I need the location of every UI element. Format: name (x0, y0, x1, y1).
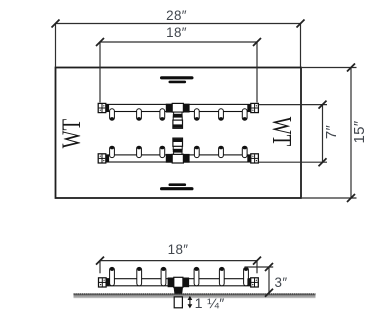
svg-text:WT: WT (57, 119, 86, 149)
svg-text:18″: 18″ (168, 242, 189, 257)
svg-text:18″: 18″ (166, 25, 187, 40)
svg-text:15″: 15″ (351, 120, 368, 143)
svg-text:WT: WT (266, 117, 296, 147)
svg-text:1 ¼″: 1 ¼″ (195, 296, 225, 312)
svg-text:28″: 28″ (166, 8, 187, 23)
svg-text:3″: 3″ (275, 275, 288, 290)
svg-text:7″: 7″ (323, 124, 340, 139)
